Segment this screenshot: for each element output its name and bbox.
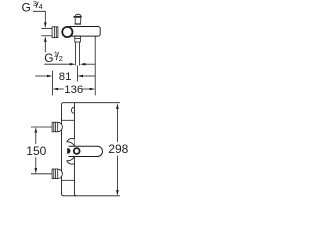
outlet ring on spout — [74, 148, 80, 154]
black half-dot (button) — [67, 148, 70, 154]
thermostat handle circle side view — [62, 27, 72, 37]
slash of G1/2 fraction — [56, 52, 58, 60]
spout column / shower connection edge — [74, 157, 76, 196]
dimension 81 — [35, 75, 47, 77]
spout pill — [69, 146, 103, 156]
top union hex nut — [52, 122, 58, 132]
internal hline bottom section — [62, 179, 75, 181]
svg-text:81: 81 — [59, 71, 72, 83]
81/136 left tick — [52, 71, 54, 96]
dimension 298 — [116, 103, 119, 109]
lower leaf (spout base fillet left) — [67, 157, 75, 164]
leader line G3/4 — [33, 11, 45, 23]
svg-text:G: G — [44, 51, 53, 65]
bottom union hex nut — [52, 169, 58, 179]
outlet tube — [75, 42, 77, 66]
svg-text:2: 2 — [59, 54, 63, 63]
label G1/2 — [44, 50, 63, 65]
body right edge — [73, 103, 75, 146]
arrow up to pipe bottom — [44, 42, 46, 53]
diverter bump front view — [71, 107, 74, 113]
top union front view: extension line — [31, 126, 52, 128]
spout mouth extension line — [94, 36, 96, 95]
body left edge with corners — [62, 103, 64, 196]
handle section divider — [62, 119, 75, 121]
svg-text:G: G — [22, 1, 31, 15]
bottom edge + 298 bottom extension — [63, 195, 120, 197]
dimension 136 — [53, 88, 59, 91]
body (spout) side view — [66, 27, 100, 37]
svg-text:150: 150 — [26, 144, 46, 158]
arrow down to pipe top — [44, 22, 47, 28]
G1/2 leader arrow to tube left — [44, 63, 70, 65]
dimension 150 — [35, 127, 38, 133]
bottom union cap — [58, 169, 63, 178]
diverter knob on top — [75, 14, 81, 16]
G1/2 right arrow at tube — [80, 63, 86, 66]
hex union nut side view — [52, 27, 58, 38]
slash of G3/4 fraction — [36, 2, 38, 8]
svg-text:4: 4 — [39, 2, 43, 11]
top union cap — [58, 122, 63, 131]
svg-text:298: 298 — [108, 142, 128, 156]
body front view (rotated): top edge + 298 top extension — [64, 102, 120, 104]
bottom union front view: extension line — [31, 173, 52, 175]
label G3/4 — [22, 0, 43, 15]
upper leaf (spout base fillet left) — [67, 138, 75, 145]
shower outlet nut below body — [75, 36, 81, 42]
svg-text:136: 136 — [64, 84, 83, 96]
wall pipe (S-union) side view — [41, 27, 52, 29]
tube centerline / 81 tick — [77, 66, 79, 82]
